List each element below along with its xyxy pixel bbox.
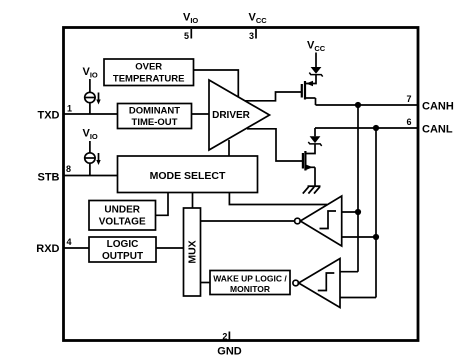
pin 2 stub	[228, 332, 230, 341]
svg-text:VOLTAGE: VOLTAGE	[99, 217, 146, 228]
svg-text:MUX: MUX	[187, 240, 199, 263]
wire Q2 source to ground	[314, 167, 316, 186]
node U2-CANL junction	[373, 234, 379, 240]
diode D2 zener	[308, 136, 321, 146]
chip outline	[64, 28, 419, 341]
block MODE SELECT	[118, 156, 258, 193]
wire CANH	[316, 104, 418, 106]
svg-text:STB: STB	[38, 172, 60, 184]
wire CANL to diode D2	[314, 128, 316, 136]
svg-text:5: 5	[184, 31, 189, 41]
wire STB	[64, 175, 118, 177]
wire driver to Q1 gate	[245, 92, 301, 101]
wire CANH sense vertical	[357, 105, 359, 272]
block LOGIC OUTPUT	[89, 237, 156, 262]
ground	[303, 186, 321, 193]
wire RXD	[64, 247, 89, 249]
block UNDER VOLTAGE	[89, 201, 156, 231]
node U2-CANH junction	[355, 209, 361, 215]
svg-text:7: 7	[406, 94, 411, 104]
block DOMINANT TIME-OUT	[118, 104, 192, 129]
wire mux to receiver output	[201, 220, 295, 222]
svg-text:1: 1	[67, 104, 72, 114]
transistor Q1 (high-side)	[302, 81, 316, 100]
wire diode to Q1 drain	[306, 75, 316, 84]
wire driver to mode select	[228, 140, 230, 156]
pin 5 stub	[190, 29, 192, 39]
svg-text:OVER: OVER	[135, 62, 162, 73]
wire mode select to receiver enable	[229, 193, 327, 205]
diode D1 zener	[309, 67, 322, 77]
svg-text:TXD: TXD	[38, 110, 60, 122]
wire over-temp to driver	[194, 70, 239, 97]
svg-text:6: 6	[406, 117, 411, 127]
block MUX	[184, 208, 201, 296]
node CANL junction	[373, 125, 379, 131]
pin 3 stub	[255, 29, 257, 39]
svg-text:TIME-OUT: TIME-OUT	[132, 117, 178, 128]
svg-text:8: 8	[66, 164, 71, 174]
current source I2 VIO pull-up on STB	[83, 128, 101, 176]
svg-text:CANH: CANH	[422, 101, 454, 113]
wire diode to Q2 drain	[306, 144, 315, 154]
wire mode select to mux	[192, 193, 194, 209]
wire U2 CANL input	[342, 236, 376, 238]
wire U3 CANL input	[340, 297, 376, 299]
svg-text:CANL: CANL	[422, 124, 453, 136]
schmitt receiver U2	[295, 196, 342, 246]
svg-text:OUTPUT: OUTPUT	[102, 251, 143, 262]
node CANH junction	[355, 102, 361, 108]
block WAKE UP LOGIC / MONITOR	[210, 271, 290, 295]
svg-text:MODE SELECT: MODE SELECT	[150, 170, 226, 182]
wire under-voltage to mode select	[156, 193, 169, 216]
schmitt wake-up receiver U3	[293, 259, 340, 308]
wire Q1 source to CANH	[315, 98, 317, 105]
svg-text:DOMINANT: DOMINANT	[129, 106, 180, 117]
svg-text:RXD: RXD	[36, 243, 59, 255]
svg-text:WAKE UP LOGIC /: WAKE UP LOGIC /	[213, 274, 287, 284]
svg-text:TEMPERATURE: TEMPERATURE	[113, 74, 185, 85]
transistor Q2 (low-side)	[303, 151, 315, 171]
wire CANL	[315, 127, 417, 129]
svg-text:LOGIC: LOGIC	[107, 239, 139, 250]
svg-text:3: 3	[249, 31, 254, 41]
svg-text:4: 4	[67, 237, 72, 247]
svg-text:UNDER: UNDER	[104, 205, 140, 216]
wire time-out to driver	[192, 113, 210, 115]
wire TXD	[64, 113, 118, 115]
wire logic output to mux	[156, 247, 184, 249]
wire U3 CANH input	[340, 271, 358, 273]
wire CANL sense vertical	[375, 128, 377, 298]
svg-text:GND: GND	[217, 346, 242, 356]
op-amp DRIVER	[209, 80, 270, 150]
current source I1 VIO pull-up on TXD	[83, 66, 101, 114]
svg-text:2: 2	[222, 332, 227, 342]
svg-text:DRIVER: DRIVER	[212, 110, 251, 121]
svg-text:MONITOR: MONITOR	[230, 284, 270, 294]
wire driver to Q2 gate	[247, 129, 302, 161]
wire U2 CANH input	[342, 211, 358, 213]
wire vcc to diode D1	[315, 53, 317, 68]
block OVER TEMPERATURE	[104, 59, 194, 86]
wire mux to wake-up block	[201, 282, 211, 284]
